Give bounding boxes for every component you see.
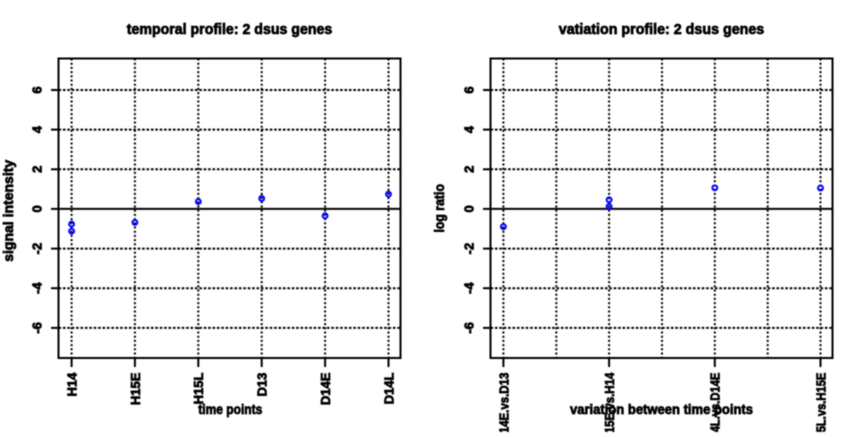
- y tick labels left panel: [30, 86, 45, 333]
- x tick labels left panel: [65, 372, 397, 405]
- plot box left panel: [59, 59, 401, 359]
- svg-text:time points: time points: [198, 402, 262, 417]
- svg-text:H15L.vs.H15E: H15L.vs.H15E: [813, 372, 828, 432]
- svg-text:4: 4: [462, 125, 477, 133]
- svg-text:variation between time points: variation between time points: [570, 402, 753, 417]
- point D14E: [323, 213, 328, 218]
- point H14 gene2: [69, 229, 74, 234]
- svg-text:2: 2: [462, 166, 477, 173]
- svg-text:0: 0: [30, 205, 45, 212]
- svg-text:2: 2: [30, 166, 45, 173]
- svg-text:D14E: D14E: [318, 372, 333, 405]
- vertical gridlines right panel: [503, 59, 820, 359]
- svg-text:signal intensity: signal intensity: [1, 159, 16, 261]
- x tick labels right panel: [496, 372, 828, 437]
- svg-text:-2: -2: [30, 243, 45, 255]
- y tick labels right panel: [462, 86, 477, 333]
- vertical gridlines left panel: [72, 59, 389, 359]
- x axis ticks left panel: [72, 358, 389, 367]
- point H15L: [196, 199, 201, 204]
- svg-text:-6: -6: [462, 322, 477, 334]
- svg-text:6: 6: [462, 86, 477, 93]
- data points right panel: [501, 185, 823, 229]
- svg-text:vatiation profile: 2 dsus gene: vatiation profile: 2 dsus genes: [559, 21, 765, 38]
- svg-text:temporal profile: 2 dsus genes: temporal profile: 2 dsus genes: [127, 21, 333, 38]
- point D14E.vs.D13: [501, 224, 506, 229]
- svg-text:D14L: D14L: [381, 373, 396, 405]
- point H15L.vs.H15E: [818, 186, 823, 191]
- svg-text:H14: H14: [65, 372, 80, 397]
- point H15E.vs.H14 gene1: [607, 197, 612, 202]
- horizontal gridlines right panel: [491, 90, 833, 328]
- point H14 gene1: [69, 222, 74, 227]
- y axis ticks right panel: [483, 90, 491, 328]
- x axis ticks right panel: [503, 358, 820, 367]
- data points left panel: [69, 192, 391, 234]
- svg-text:D14E.vs.D13: D14E.vs.D13: [496, 373, 511, 432]
- svg-text:4: 4: [30, 125, 45, 133]
- point D14L: [386, 192, 391, 197]
- svg-text:H15E: H15E: [128, 372, 143, 405]
- svg-text:-4: -4: [462, 282, 477, 294]
- point D13: [259, 196, 264, 201]
- svg-text:H15L: H15L: [191, 373, 206, 405]
- svg-text:-4: -4: [30, 282, 45, 294]
- svg-text:0: 0: [462, 205, 477, 212]
- zero line left panel: [59, 208, 401, 210]
- horizontal gridlines left panel: [59, 90, 401, 328]
- point H15E.vs.H14 gene2: [607, 204, 612, 209]
- point H15E: [132, 220, 137, 225]
- plot box right panel: [491, 59, 833, 359]
- zero line right panel: [491, 208, 833, 210]
- svg-text:-2: -2: [462, 243, 477, 255]
- svg-text:-6: -6: [30, 322, 45, 334]
- svg-text:6: 6: [30, 86, 45, 93]
- point D14L.vs.D14E: [712, 185, 717, 190]
- svg-text:log ratio: log ratio: [432, 184, 447, 233]
- svg-text:D13: D13: [255, 373, 270, 397]
- y axis ticks left panel: [51, 90, 59, 328]
